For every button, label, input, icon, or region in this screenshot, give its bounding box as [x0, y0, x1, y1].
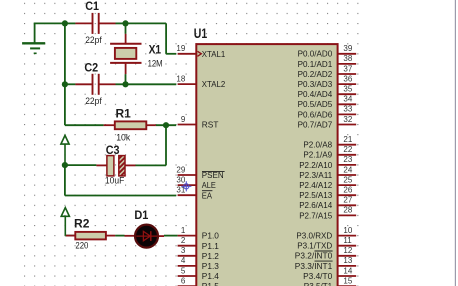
svg-text:P0.6/AD6: P0.6/AD6 [298, 109, 333, 119]
pin 13 P3.3/INT1 [338, 265, 357, 267]
svg-text:220: 220 [75, 241, 88, 252]
svg-text:11: 11 [343, 236, 352, 245]
wire node F to C3 [65, 164, 97, 166]
svg-text:28: 28 [343, 206, 352, 215]
svg-text:P3.0/RXD: P3.0/RXD [296, 231, 332, 241]
svg-text:32: 32 [343, 115, 352, 124]
pin 39 P0.0/AD0 [338, 53, 357, 55]
grid dots [20, 0, 360, 286]
svg-text:P2.4/A12: P2.4/A12 [299, 180, 332, 190]
svg-text:P2.5/A13: P2.5/A13 [299, 190, 332, 200]
svg-text:P0.2/AD2: P0.2/AD2 [298, 69, 333, 79]
pin 34 P0.5/AD5 [338, 103, 357, 105]
node A junction [62, 20, 68, 26]
pin 23 P2.2/A10 [338, 164, 357, 166]
svg-text:2: 2 [181, 236, 186, 245]
wire C1 to node B [116, 22, 126, 24]
pin 33 P0.6/AD6 [338, 113, 357, 115]
microcontroller U1 body [196, 44, 337, 286]
svg-text:14: 14 [343, 266, 352, 275]
pin 15 P3.5/T1 [338, 285, 357, 286]
wire ground to node A [34, 22, 65, 24]
power arrow VCC2 [61, 208, 69, 236]
svg-text:10: 10 [343, 226, 352, 235]
svg-text:XTAL1: XTAL1 [202, 49, 226, 59]
svg-text:P1.2: P1.2 [202, 251, 219, 261]
pin 9 RST [178, 124, 197, 126]
svg-text:35: 35 [343, 85, 352, 94]
pin 11 P3.1/TXD [338, 245, 357, 247]
LED D1 [125, 225, 165, 248]
svg-text:24: 24 [343, 165, 352, 174]
svg-text:23: 23 [343, 155, 352, 164]
resistor R1 [104, 121, 156, 129]
node B junction [122, 20, 128, 26]
pin 31 EA [178, 194, 197, 196]
pin 35 P0.4/AD4 [338, 93, 357, 95]
svg-text:P0.4/AD4: P0.4/AD4 [298, 89, 333, 99]
svg-text:33: 33 [343, 105, 352, 114]
svg-text:P0.0/AD0: P0.0/AD0 [298, 49, 333, 59]
crystal X1 [110, 44, 141, 63]
svg-text:12: 12 [343, 246, 352, 255]
svg-text:9: 9 [181, 115, 186, 124]
svg-text:39: 39 [343, 44, 352, 53]
pin 37 P0.2/AD2 [338, 73, 357, 75]
svg-text:C1: C1 [85, 0, 99, 13]
svg-text:27: 27 [343, 196, 352, 205]
pin 19 XTAL1 [178, 53, 197, 55]
EA overline [202, 190, 212, 192]
capacitor C2 [75, 74, 115, 95]
svg-text:P0.1/AD1: P0.1/AD1 [298, 59, 333, 69]
pin 26 P2.5/A13 [338, 194, 357, 196]
wire R1 to node E and RST pin [156, 124, 176, 126]
XTAL1 clock chevron [198, 51, 202, 56]
svg-text:P2.0/A8: P2.0/A8 [303, 140, 332, 150]
wire R2 to D1 [115, 235, 124, 237]
svg-text:RST: RST [202, 120, 219, 130]
svg-text:P2.3/A11: P2.3/A11 [299, 170, 332, 180]
wire RST corner to R1 [65, 124, 104, 126]
node F junction [62, 162, 68, 168]
svg-text:XTAL2: XTAL2 [202, 79, 226, 89]
svg-text:18: 18 [176, 74, 185, 83]
svg-text:P0.7/AD7: P0.7/AD7 [298, 119, 333, 129]
pin 25 P2.4/A12 [338, 184, 357, 186]
wire VCC2 corner to R2 [65, 235, 75, 237]
svg-text:P3.1/TXD: P3.1/TXD [297, 241, 332, 251]
ALE origin marker [181, 181, 191, 191]
wire node E down to C3 right corner [165, 125, 167, 165]
svg-text:P3.2/INT0: P3.2/INT0 [295, 251, 333, 261]
crystal X1 stem top [125, 23, 127, 33]
svg-text:21: 21 [343, 135, 352, 144]
PSEN overline [202, 170, 225, 172]
svg-text:P3.5/T1: P3.5/T1 [304, 281, 333, 286]
svg-text:34: 34 [343, 95, 352, 104]
capacitor C1 [75, 13, 115, 34]
ground [22, 23, 45, 53]
svg-text:P0.5/AD5: P0.5/AD5 [298, 99, 333, 109]
pin 2 P1.1 [178, 245, 197, 247]
pin 5 P1.4 [178, 275, 197, 277]
svg-text:P2.2/A10: P2.2/A10 [299, 160, 332, 170]
wire D1 to P1.0 [164, 235, 178, 237]
svg-text:4: 4 [181, 256, 186, 265]
svg-text:5: 5 [181, 266, 186, 275]
svg-text:P3.4/T0: P3.4/T0 [303, 271, 332, 281]
svg-text:29: 29 [176, 165, 185, 174]
svg-text:P1.0: P1.0 [202, 231, 219, 241]
wire node B to XTAL1 corner [126, 22, 167, 24]
svg-text:ALE: ALE [202, 180, 216, 190]
svg-text:22pf: 22pf [85, 96, 102, 107]
pin 18 XTAL2 [178, 83, 197, 85]
pin 14 P3.4/T0 [338, 275, 357, 277]
pin 22 P2.1/A9 [338, 154, 357, 156]
svg-text:3: 3 [181, 246, 186, 255]
wire node F down to EA [64, 165, 66, 195]
svg-text:19: 19 [176, 44, 185, 53]
svg-text:U1: U1 [194, 26, 208, 41]
svg-text:R2: R2 [74, 217, 90, 231]
INT1 overline [315, 260, 333, 262]
pin 21 P2.0/A8 [338, 144, 357, 146]
svg-text:12M: 12M [148, 58, 163, 69]
pin 3 P1.2 [178, 255, 197, 257]
pin 12 P3.2/INT0 [338, 255, 357, 257]
pin 24 P2.3/A11 [338, 174, 357, 176]
svg-text:C3: C3 [106, 143, 120, 157]
svg-text:D1: D1 [134, 208, 148, 222]
window edge line [455, 0, 456, 286]
pin 36 P0.3/AD3 [338, 83, 357, 85]
wire node C to C2 [65, 83, 76, 85]
svg-text:15: 15 [343, 276, 352, 285]
pin 28 P2.7/A15 [338, 214, 357, 216]
svg-text:EA: EA [202, 190, 213, 200]
svg-text:37: 37 [343, 64, 352, 73]
svg-text:P1.5: P1.5 [202, 281, 219, 286]
svg-text:P1.3: P1.3 [202, 261, 219, 271]
resistor R2 [66, 232, 115, 240]
svg-text:P2.6/A14: P2.6/A14 [299, 200, 332, 210]
pin 30 ALE [178, 184, 197, 186]
svg-text:P0.3/AD3: P0.3/AD3 [298, 79, 333, 89]
wire C2 to node D [116, 83, 126, 85]
svg-text:P3.3/INT1: P3.3/INT1 [295, 261, 333, 271]
svg-text:25: 25 [343, 175, 352, 184]
wire node A down to node C and RST corner [64, 23, 66, 125]
pin 4 P1.3 [178, 265, 197, 267]
svg-text:30: 30 [176, 175, 185, 184]
svg-text:38: 38 [343, 54, 352, 63]
svg-text:22pf: 22pf [85, 35, 102, 46]
pin 32 P0.7/AD7 [338, 124, 357, 126]
node E junction [163, 122, 169, 128]
svg-text:22: 22 [343, 145, 352, 154]
node C junction [62, 81, 68, 87]
svg-text:1: 1 [181, 226, 186, 235]
svg-text:C2: C2 [84, 61, 98, 75]
capacitor C3 [96, 156, 135, 176]
pin 10 P3.0/RXD [338, 235, 357, 237]
svg-text:10k: 10k [116, 132, 130, 143]
crystal X1 stem bottom [125, 63, 127, 74]
power arrow VCC1 [61, 135, 69, 165]
svg-text:10uF: 10uF [105, 176, 125, 187]
svg-text:P2.1/A9: P2.1/A9 [303, 150, 332, 160]
node D junction [122, 81, 128, 87]
INT0 overline [315, 250, 333, 252]
svg-text:26: 26 [343, 186, 352, 195]
wire node A to C1 [65, 22, 76, 24]
svg-text:P1.1: P1.1 [202, 241, 219, 251]
pin 29 PSEN [178, 174, 197, 176]
pin 27 P2.6/A14 [338, 204, 357, 206]
pin 6 P1.5 [178, 285, 197, 286]
svg-text:R1: R1 [116, 106, 131, 120]
svg-text:X1: X1 [149, 42, 162, 56]
svg-text:36: 36 [343, 74, 352, 83]
svg-text:P2.7/A15: P2.7/A15 [299, 210, 332, 220]
svg-text:P1.4: P1.4 [202, 271, 219, 281]
wire node D to XTAL2 [126, 83, 177, 85]
pin 38 P0.1/AD1 [338, 63, 357, 65]
svg-text:13: 13 [343, 256, 352, 265]
svg-text:6: 6 [181, 276, 186, 285]
pin 1 P1.0 [178, 235, 197, 237]
